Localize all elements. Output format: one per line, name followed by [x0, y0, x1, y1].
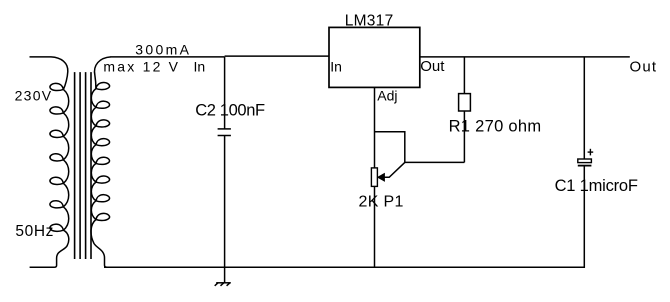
svg-text:Out: Out: [630, 58, 657, 75]
svg-text:In: In: [330, 58, 342, 74]
svg-text:300mA: 300mA: [135, 42, 189, 58]
svg-text:Adj: Adj: [377, 87, 397, 103]
svg-text:LM317: LM317: [345, 13, 394, 30]
svg-text:Out: Out: [420, 58, 445, 75]
svg-text:230V: 230V: [15, 87, 52, 103]
svg-text:C1 1microF: C1 1microF: [555, 177, 638, 195]
svg-text:In: In: [194, 58, 206, 74]
svg-text:max 12 V: max 12 V: [103, 58, 178, 74]
svg-text:2K P1: 2K P1: [359, 194, 404, 211]
svg-text:50Hz: 50Hz: [15, 223, 53, 240]
svg-text:C2 100nF: C2 100nF: [195, 102, 265, 120]
svg-text:R1 270 ohm: R1 270 ohm: [449, 117, 541, 135]
